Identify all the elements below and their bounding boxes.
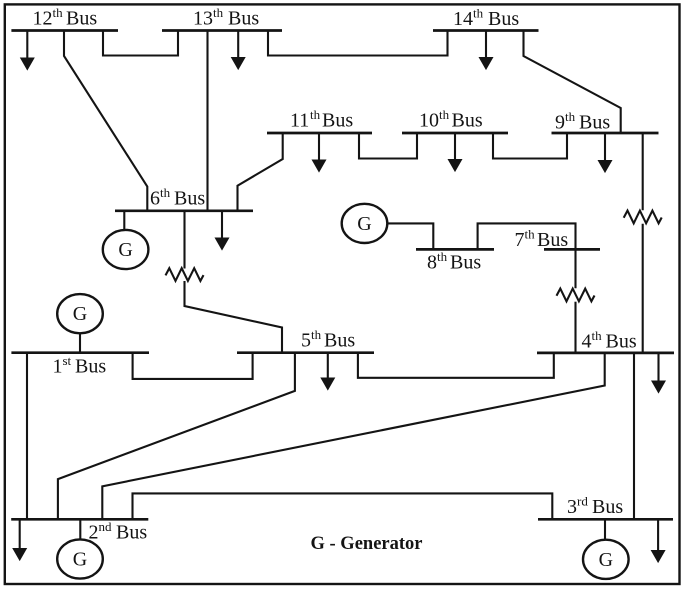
svg-text:Bus: Bus — [452, 110, 483, 132]
svg-text:2: 2 — [89, 522, 99, 544]
bus 5 bar — [237, 351, 374, 354]
load arrow bus10 — [454, 133, 456, 162]
svg-text:1: 1 — [53, 356, 63, 378]
generator G2 stem — [79, 519, 81, 540]
svg-text:Bus: Bus — [450, 252, 481, 274]
load arrow bus4 — [657, 353, 659, 384]
bus 12 bar — [11, 29, 118, 32]
svg-text:Bus: Bus — [75, 356, 106, 378]
svg-text:10: 10 — [419, 110, 439, 132]
bus 2 bar — [11, 518, 148, 521]
bus 11 bar — [267, 132, 372, 135]
svg-text:14: 14 — [453, 8, 473, 30]
svg-text:th: th — [160, 185, 171, 200]
load arrow bus3 — [657, 519, 659, 553]
generator G1 stem — [79, 333, 81, 352]
wire bus2-bus3 — [133, 493, 553, 519]
wire bus6-bus5 upper — [183, 211, 185, 269]
svg-text:9: 9 — [555, 112, 565, 134]
bus 4 bar — [537, 352, 674, 355]
svg-text:Bus: Bus — [606, 331, 637, 353]
wire bus10-bus9 — [493, 133, 567, 159]
svg-text:G: G — [73, 549, 87, 571]
bus 13 bar — [162, 29, 282, 32]
svg-text:6: 6 — [150, 188, 160, 210]
load arrow bus13 — [237, 31, 239, 61]
wire G8-bus8 — [387, 223, 434, 249]
wire bus11-bus6 — [238, 133, 283, 211]
svg-text:th: th — [592, 328, 603, 343]
svg-text:Bus: Bus — [66, 8, 97, 30]
generator G6 circle — [103, 230, 149, 269]
generator G1 circle — [57, 294, 103, 333]
svg-text:st: st — [63, 353, 72, 368]
wire bus12-bus6 — [64, 31, 147, 211]
load arrow bus12 — [26, 31, 28, 61]
bus 6 bar — [115, 209, 253, 212]
svg-text:Bus: Bus — [324, 330, 355, 352]
svg-text:Bus: Bus — [228, 8, 259, 30]
svg-text:G: G — [118, 239, 132, 261]
wire bus12-bus13 — [103, 31, 178, 56]
svg-text:th: th — [311, 327, 322, 342]
svg-text:Bus: Bus — [116, 522, 147, 544]
load arrow bus6 — [221, 211, 223, 241]
wire bus1-bus5 — [133, 353, 253, 379]
wire bus6-bus5 lower — [185, 281, 283, 353]
svg-text:th: th — [525, 227, 536, 242]
svg-text:G: G — [73, 303, 87, 325]
bus 10 bar — [402, 132, 508, 135]
svg-text:Bus: Bus — [537, 229, 568, 251]
bus 9 bar — [552, 132, 659, 135]
bus 3 bar — [538, 518, 673, 521]
svg-text:Bus: Bus — [174, 188, 205, 210]
svg-text:Bus: Bus — [579, 112, 610, 134]
svg-text:th: th — [565, 109, 576, 124]
wire bus8-bus7-bus4 upper — [478, 223, 576, 288]
generator G3 circle — [583, 540, 629, 579]
svg-text:th: th — [213, 5, 224, 20]
bus 14 bar — [433, 29, 539, 32]
svg-text:7: 7 — [515, 229, 525, 251]
svg-text:G: G — [357, 213, 371, 235]
generator G3 stem — [604, 519, 606, 540]
wire bus4-bus3 — [633, 353, 635, 519]
wire bus4-bus2 — [102, 353, 604, 519]
wire bus5-bus2 — [58, 353, 295, 520]
bus 7 bar — [544, 248, 600, 251]
load arrow bus11 — [318, 133, 320, 163]
svg-text:th: th — [53, 5, 64, 20]
wire bus11-bus10 — [359, 133, 417, 159]
reactor zigzag on 6-5 line — [166, 268, 204, 281]
svg-text:G: G — [599, 549, 613, 571]
svg-text:th: th — [439, 107, 450, 122]
svg-text:Bus: Bus — [592, 496, 623, 518]
bus 8 bar — [416, 248, 494, 251]
svg-text:Bus: Bus — [322, 110, 353, 132]
wire bus13-bus14 — [268, 31, 448, 56]
svg-text:8: 8 — [427, 252, 437, 274]
generator G2 circle — [57, 539, 103, 578]
svg-text:5: 5 — [301, 330, 311, 352]
wire bus13-bus6 — [206, 31, 208, 211]
svg-text:11: 11 — [290, 110, 309, 132]
svg-text:3: 3 — [567, 496, 577, 518]
svg-text:G - Generator: G - Generator — [311, 534, 423, 554]
wire bus7-bus4 lower — [574, 302, 576, 353]
load arrow bus5 — [327, 353, 329, 381]
wire bus9-bus4 upper — [642, 133, 644, 210]
svg-text:4: 4 — [582, 331, 592, 353]
wire bus1-bus2 — [26, 353, 28, 520]
reactor zigzag on 7-4 line — [557, 289, 595, 302]
load arrow bus2 — [19, 519, 21, 551]
svg-text:rd: rd — [577, 494, 588, 509]
load arrow bus9 — [604, 133, 606, 163]
load arrow bus14 — [485, 31, 487, 61]
wire bus5-bus4 — [358, 353, 554, 378]
wire bus14-bus9 — [524, 31, 621, 134]
svg-text:th: th — [437, 249, 448, 264]
generator G6 stem — [123, 211, 125, 231]
svg-text:13: 13 — [193, 8, 213, 30]
wire bus9-bus4 lower — [642, 224, 644, 353]
svg-text:12: 12 — [33, 8, 53, 30]
svg-text:th: th — [310, 107, 321, 122]
svg-text:Bus: Bus — [488, 8, 519, 30]
generator G8 circle — [342, 204, 388, 243]
svg-text:nd: nd — [99, 519, 113, 534]
svg-text:th: th — [473, 6, 484, 21]
reactor zigzag on 9-4 line — [624, 211, 662, 224]
bus 1 bar — [11, 351, 149, 354]
